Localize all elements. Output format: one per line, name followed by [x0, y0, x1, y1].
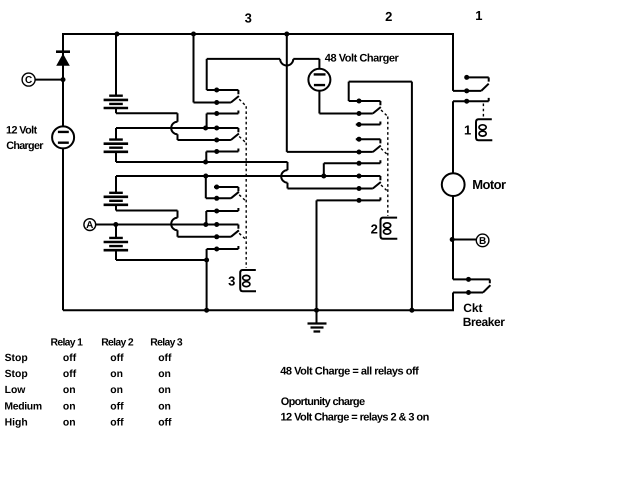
svg-text:1: 1 [475, 8, 482, 23]
svg-text:C: C [25, 75, 32, 86]
svg-text:1: 1 [464, 123, 471, 138]
svg-text:Medium: Medium [4, 401, 42, 412]
svg-text:off: off [110, 417, 124, 428]
svg-text:2: 2 [385, 9, 392, 24]
svg-text:A: A [86, 220, 93, 231]
svg-text:Ckt: Ckt [463, 301, 482, 315]
svg-text:on: on [110, 369, 123, 380]
svg-text:off: off [110, 401, 124, 412]
svg-text:Charger: Charger [6, 140, 44, 152]
svg-text:B: B [479, 236, 486, 247]
svg-text:Breaker: Breaker [463, 315, 506, 329]
svg-text:on: on [158, 401, 171, 412]
svg-text:Stop: Stop [5, 353, 28, 364]
svg-text:on: on [63, 385, 76, 396]
svg-text:Low: Low [5, 385, 27, 396]
svg-text:Oportunity charge: Oportunity charge [281, 396, 365, 408]
svg-text:on: on [158, 385, 171, 396]
svg-text:48 Volt Charge = all relays of: 48 Volt Charge = all relays off [280, 365, 419, 377]
svg-text:3: 3 [228, 274, 235, 289]
svg-text:off: off [63, 369, 77, 380]
svg-text:off: off [158, 417, 172, 428]
svg-text:Motor: Motor [472, 177, 506, 192]
svg-text:3: 3 [245, 11, 252, 26]
svg-text:on: on [110, 385, 123, 396]
svg-text:off: off [63, 353, 77, 364]
svg-text:on: on [63, 401, 76, 412]
svg-text:Relay 1: Relay 1 [51, 337, 84, 348]
svg-text:48 Volt Charger: 48 Volt Charger [325, 52, 400, 64]
svg-text:off: off [110, 353, 124, 364]
svg-text:2: 2 [371, 221, 378, 236]
svg-text:Stop: Stop [5, 369, 28, 380]
svg-text:Relay 3: Relay 3 [150, 337, 183, 348]
svg-text:High: High [5, 417, 28, 428]
svg-text:12 Volt Charge = relays 2 & 3: 12 Volt Charge = relays 2 & 3 on [281, 411, 430, 423]
svg-text:on: on [158, 369, 171, 380]
svg-text:on: on [63, 417, 76, 428]
svg-text:Relay 2: Relay 2 [101, 337, 134, 348]
svg-text:12 Volt: 12 Volt [6, 125, 38, 137]
svg-text:off: off [158, 353, 172, 364]
